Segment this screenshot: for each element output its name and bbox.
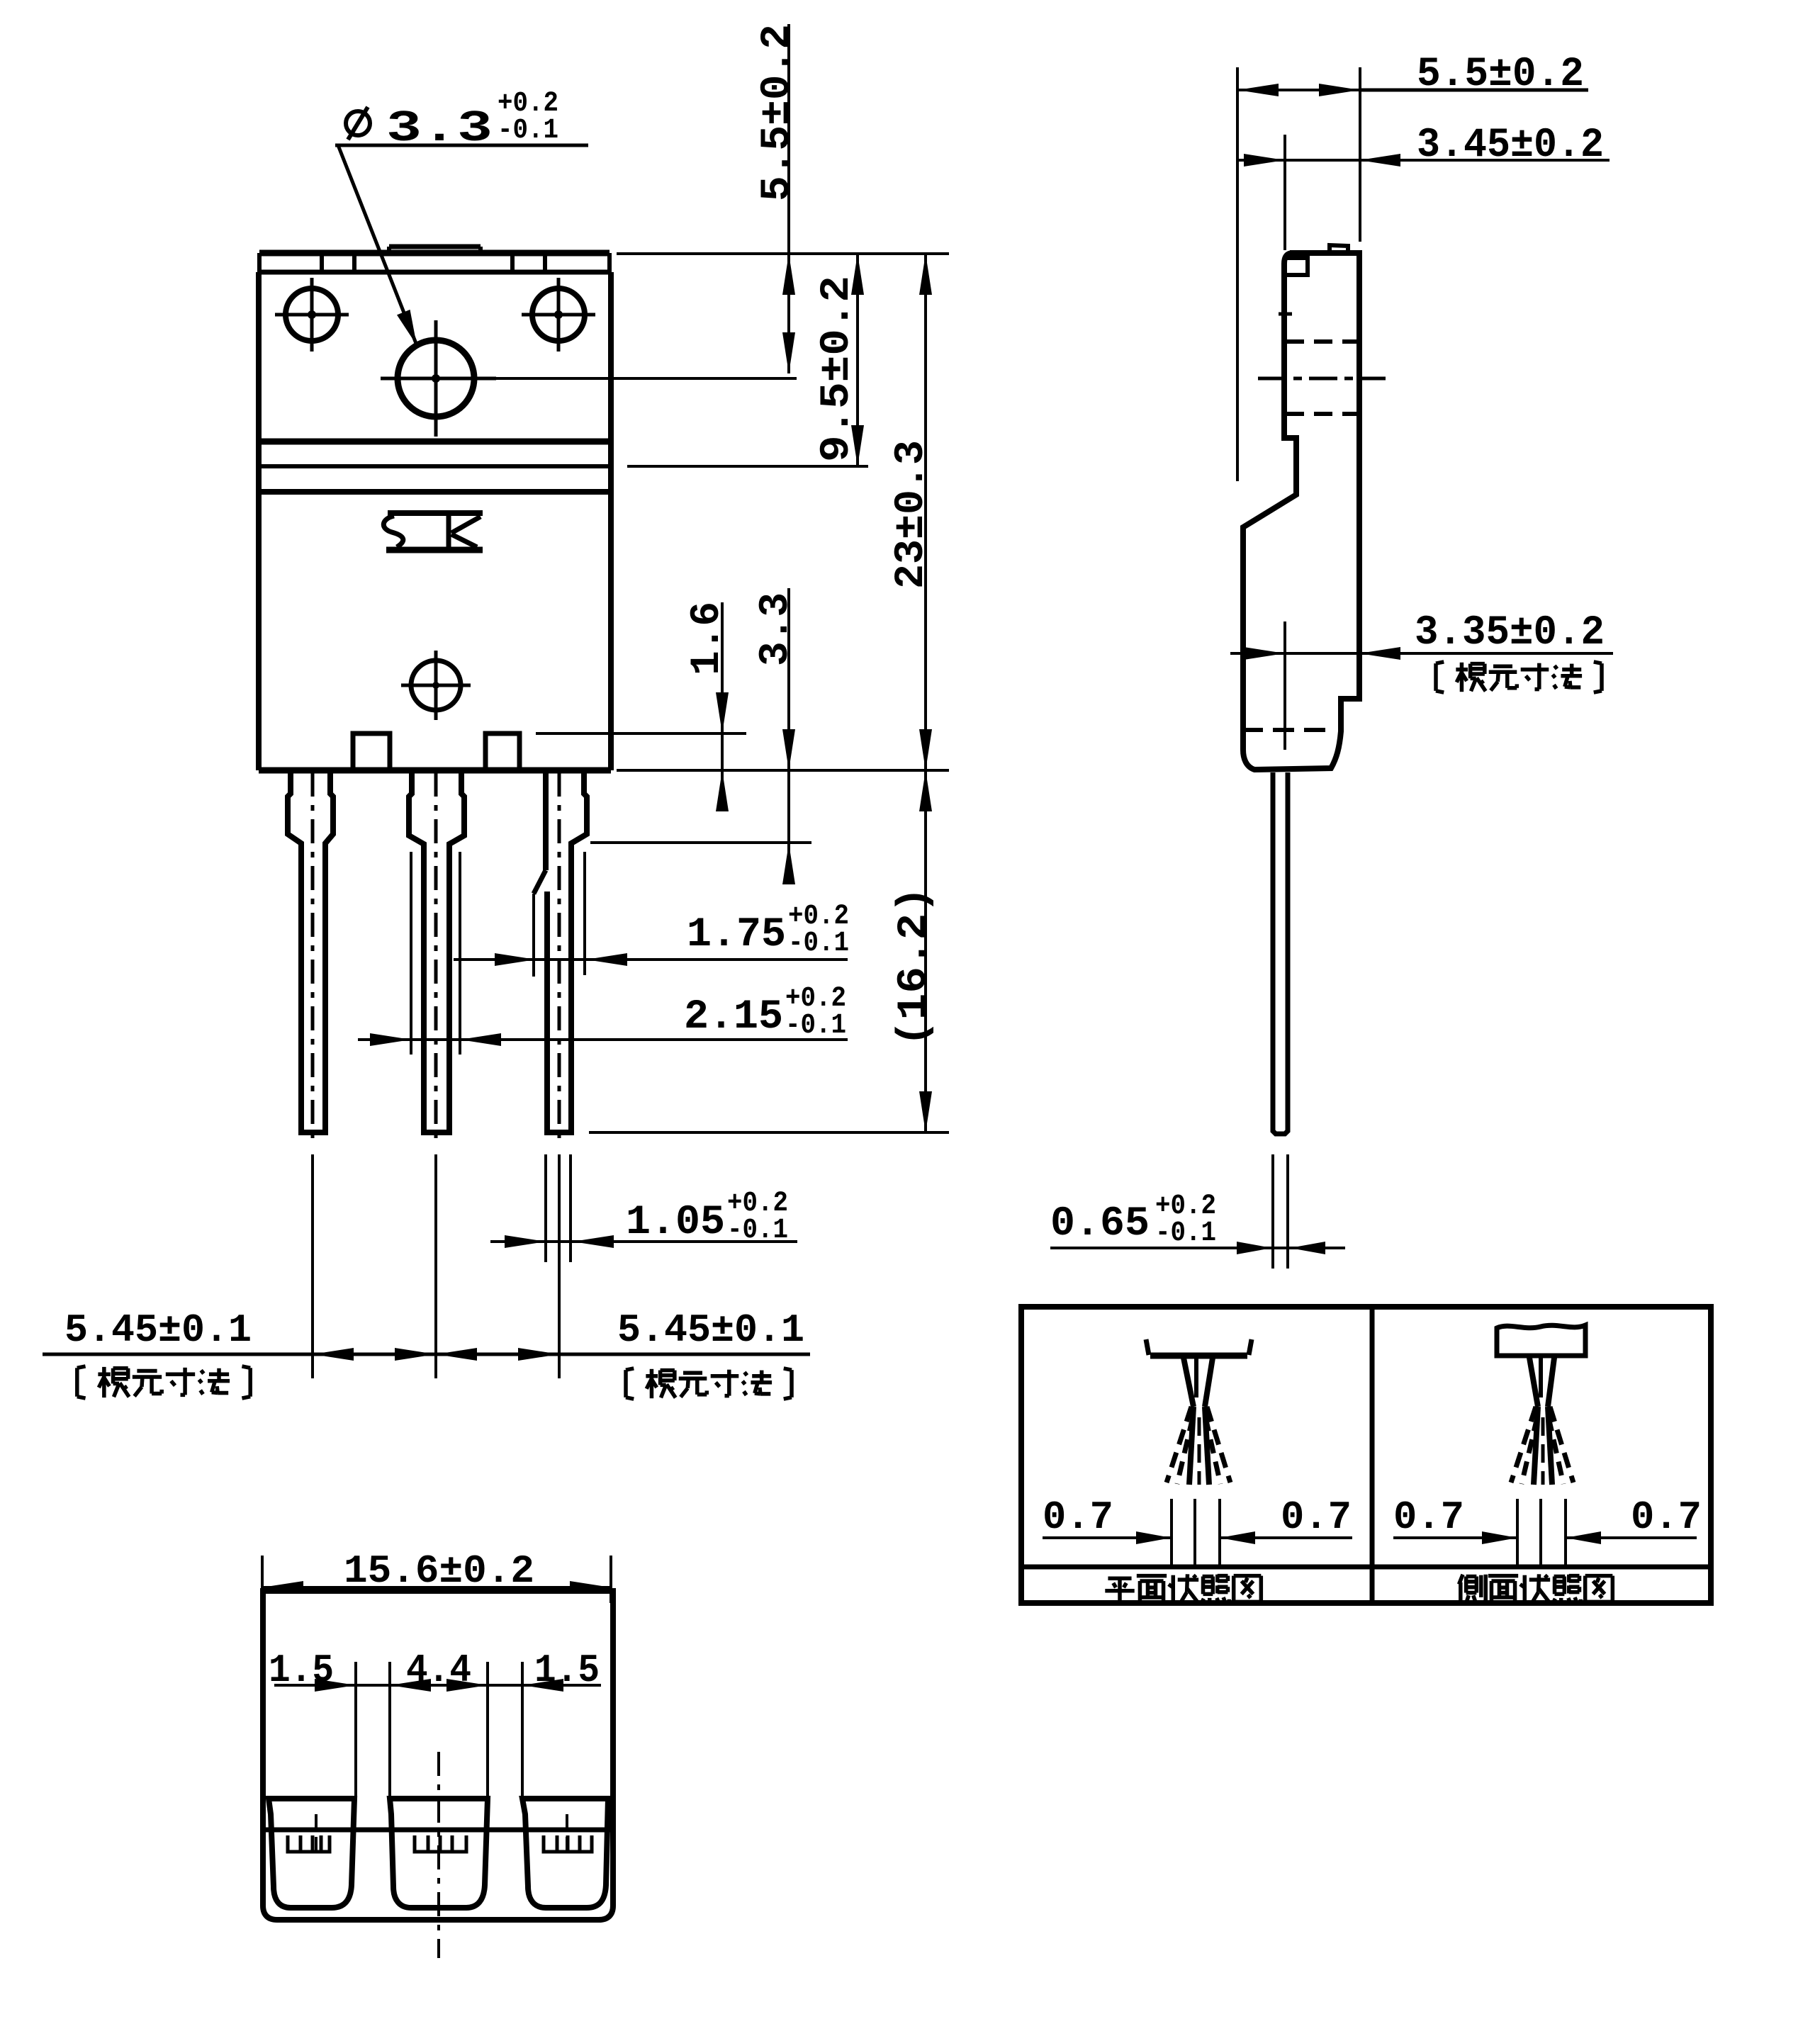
table: vertical divider	[1370, 1307, 1375, 1603]
bottom view: lead section comb 2	[415, 1835, 466, 1852]
bottom view: step line	[263, 1828, 613, 1833]
dim 1.6 (front)	[721, 602, 724, 808]
svg-text:1.75: 1.75	[687, 912, 786, 958]
dim 1.75 lead3 root width	[454, 958, 848, 961]
front view: package body outline	[256, 272, 262, 770]
dim 5.45 left lead pitch	[43, 1353, 810, 1356]
dim 4.4 (bottom view)	[390, 1679, 431, 1692]
dim 2.15 lead2 root width	[358, 1038, 848, 1041]
side view: lead tip extension lines	[1271, 1154, 1274, 1269]
side-state figure: lead fan	[1529, 1358, 1538, 1407]
dim 1.5/4.4/1.5 extension lines	[354, 1662, 357, 1799]
front view: mold step lines	[259, 439, 611, 445]
svg-text:1.05: 1.05	[626, 1200, 725, 1246]
svg-text:0.7: 0.7	[1631, 1495, 1702, 1540]
svg-text:0.65: 0.65	[1050, 1201, 1150, 1247]
note kanji root-dimension right	[626, 1368, 634, 1370]
svg-text:5.5±0.2: 5.5±0.2	[755, 24, 801, 201]
front view: mounting hole	[398, 340, 474, 417]
table: caption row line	[1021, 1565, 1711, 1570]
front view: raised tab on top edge	[389, 244, 481, 249]
svg-text:4.4: 4.4	[406, 1648, 471, 1693]
svg-text:1.5: 1.5	[269, 1648, 334, 1693]
dim 1.05 lead tip width	[490, 1240, 797, 1243]
svg-text:-0.1: -0.1	[1155, 1217, 1216, 1249]
svg-text:(16.2): (16.2)	[892, 887, 938, 1047]
front view: right pilot crosshair	[532, 288, 585, 341]
svg-text:0.7: 0.7	[1043, 1495, 1113, 1540]
plan figure extension lines	[1170, 1499, 1173, 1565]
side view: hole center line	[1258, 377, 1386, 381]
bottom view: outline	[263, 1591, 613, 1920]
bottom view: lead section comb 3	[544, 1835, 592, 1852]
bottom view: cavity tub 3	[522, 1799, 608, 1908]
dim 3.35 root thickness (side)	[1283, 622, 1286, 750]
front view: lead 2 outline	[409, 770, 464, 1132]
front view: lead 2 center line	[434, 772, 438, 1141]
plan-state figure: lead fan	[1184, 1358, 1193, 1407]
front view: top flange band	[259, 250, 610, 257]
front view: lead 3 root extension line	[583, 852, 586, 975]
svg-text:15.6±0.2: 15.6±0.2	[344, 1548, 534, 1594]
svg-text:5.45±0.1: 5.45±0.1	[64, 1307, 252, 1353]
dim 15.6 (bottom view)	[261, 1556, 264, 1603]
svg-text:-0.1: -0.1	[498, 115, 558, 147]
dim 3.3 (front)	[787, 588, 790, 861]
dim 5.5 top (front)	[617, 252, 949, 255]
side view: bottom step hidden line	[1242, 728, 1335, 732]
svg-text:-0.1: -0.1	[788, 928, 849, 960]
svg-text:0.7: 0.7	[1393, 1495, 1464, 1540]
note kanji root-dimension left	[77, 1366, 86, 1368]
svg-text:5.45±0.1: 5.45±0.1	[617, 1307, 804, 1353]
front view: lead 3 center line	[558, 772, 561, 1141]
front view: lead 3 tip extension lines	[544, 1154, 547, 1262]
svg-text:0.7: 0.7	[1281, 1495, 1352, 1540]
dim (16.2) (front)	[617, 769, 949, 772]
svg-text:9.5±0.2: 9.5±0.2	[814, 276, 860, 462]
svg-text:2.15: 2.15	[684, 994, 783, 1040]
side view: crosshair level tick	[1279, 313, 1292, 316]
front view: lead 3 outline	[543, 770, 549, 870]
svg-text:3.35±0.2: 3.35±0.2	[1415, 610, 1605, 656]
dim 0.65 lead thickness (side)	[1050, 1247, 1345, 1249]
table: outer box	[1021, 1307, 1711, 1603]
front view: lead 2 root extension lines	[410, 852, 412, 1054]
dim 5.5 (side)	[1236, 67, 1239, 481]
caption side-state	[1459, 1575, 1464, 1585]
side view: hole top hidden line	[1286, 339, 1357, 344]
svg-text:-0.1: -0.1	[727, 1215, 788, 1247]
side-state figure extension lines	[1516, 1499, 1519, 1565]
bottom view: lead section comb 1	[288, 1835, 330, 1852]
bottom view: cavity tub 1	[269, 1799, 354, 1908]
svg-text:3.3: 3.3	[753, 592, 799, 666]
svg-text:3.45±0.2: 3.45±0.2	[1417, 123, 1604, 169]
svg-text:23±0.3: 23±0.3	[889, 440, 935, 589]
front view: lead 1 outline	[288, 770, 333, 1132]
front view: SK logo	[388, 510, 483, 516]
front view: bottom notch 2	[485, 733, 519, 770]
dim 1.5 right (bottom view)	[522, 1679, 563, 1692]
note kanji root-dimension side	[1436, 662, 1444, 663]
side view: top small tab	[1330, 245, 1348, 253]
side view: flange step box	[1286, 258, 1308, 275]
dim 3.45 (side)	[1283, 135, 1286, 250]
front view: band divider ticks	[320, 253, 324, 272]
bottom view: cavity tub 2	[390, 1799, 488, 1908]
dim 23 (front)	[924, 254, 927, 770]
dim 1.5 left (bottom view)	[274, 1684, 601, 1687]
svg-text:1.5: 1.5	[534, 1648, 600, 1693]
side view: body outline	[1243, 253, 1359, 770]
front view: left pilot crosshair	[286, 288, 338, 341]
plan-state figure: seating bar	[1150, 1353, 1247, 1359]
side-state figure: package block	[1497, 1325, 1585, 1356]
caption plan-state	[1108, 1577, 1131, 1581]
svg-text:1.6: 1.6	[685, 602, 731, 675]
front view: lower pilot crosshair	[411, 660, 461, 710]
front view: bottom notch 1	[353, 733, 390, 770]
bottom view: center line	[437, 1752, 440, 1958]
dim 9.5 (front)	[627, 465, 868, 468]
side view: hole bottom hidden line	[1286, 412, 1357, 416]
svg-text:-0.1: -0.1	[785, 1010, 846, 1042]
side view: lead	[1273, 772, 1288, 1134]
front view: lead 1 center line	[311, 772, 315, 1141]
